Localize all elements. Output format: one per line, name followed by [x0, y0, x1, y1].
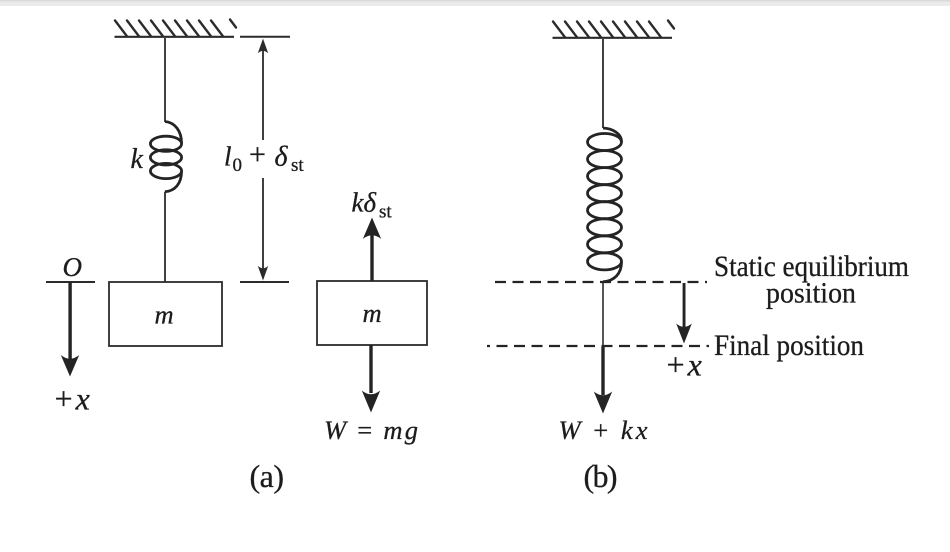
top gray band [0, 0, 950, 6]
svg-text:W = mg: W = mg [324, 415, 418, 445]
svg-text:0: 0 [233, 155, 243, 176]
svg-text:st: st [291, 155, 304, 176]
force down arrow (b) [594, 347, 612, 414]
svg-text:+x: +x [665, 347, 704, 383]
+x displacement arrow (b) [676, 283, 692, 344]
FBD mass block m (a) [317, 281, 427, 345]
svg-text:m: m [155, 300, 174, 330]
svg-text:(a): (a) [250, 458, 285, 494]
dimension extension line top [240, 36, 290, 38]
wire rod upper (a) [164, 38, 166, 122]
svg-text:k: k [131, 144, 144, 175]
ceiling (b) [553, 21, 675, 38]
origin line O [46, 281, 95, 283]
spring k coil (a) [150, 122, 181, 192]
mass block m (a) [109, 282, 222, 346]
spring coil (b) [588, 128, 622, 282]
spring force up arrow [363, 218, 381, 282]
svg-text:l: l [224, 142, 232, 172]
svg-text:m: m [363, 298, 382, 328]
svg-text:+x: +x [53, 381, 92, 417]
final position dashed line [487, 345, 709, 347]
svg-text:kδ: kδ [352, 188, 377, 218]
static equilibrium dashed line [495, 281, 707, 283]
wire rod upper (b) [602, 39, 604, 128]
wire rod between positions (b) [602, 282, 604, 346]
weight down arrow (a) [362, 345, 380, 413]
ceiling (a) [115, 20, 237, 37]
svg-text:O: O [63, 252, 83, 282]
svg-text:+: + [249, 138, 266, 171]
+x axis arrow [61, 282, 79, 377]
wire rod lower (a) [164, 192, 166, 282]
svg-text:position: position [766, 277, 856, 310]
svg-text:st: st [379, 202, 392, 223]
svg-text:Final position: Final position [714, 329, 864, 362]
svg-text:δ: δ [275, 142, 289, 173]
dimension extension line bottom [240, 281, 289, 283]
dimension arrow l0+dst [258, 39, 268, 281]
svg-text:(b): (b) [584, 458, 618, 494]
